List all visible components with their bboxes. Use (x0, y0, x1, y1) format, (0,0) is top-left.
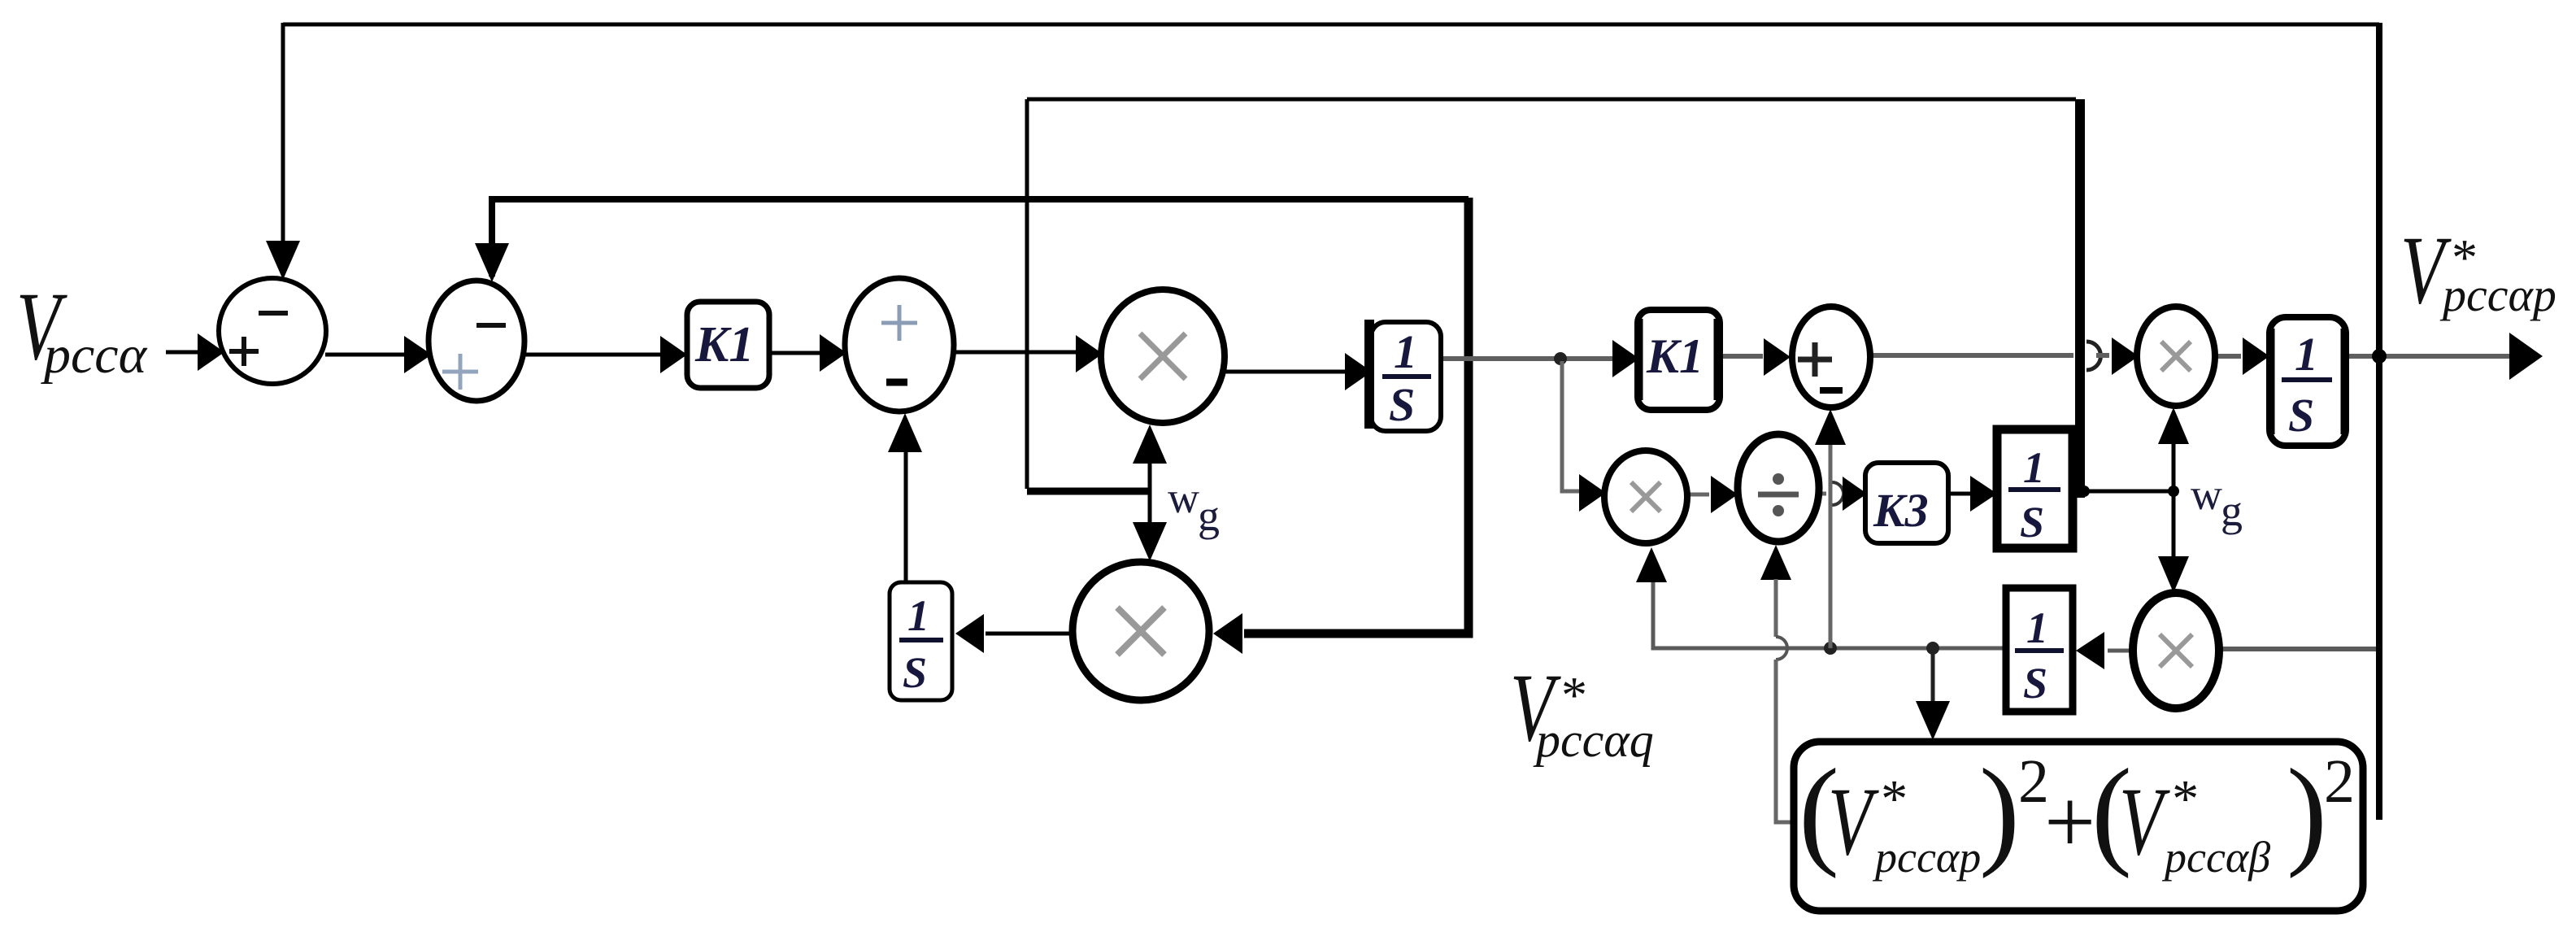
svg-text:+: + (2044, 772, 2095, 873)
svg-text:S: S (1389, 378, 1415, 431)
svg-text:K1: K1 (694, 317, 754, 372)
svg-text:w: w (2191, 470, 2222, 519)
svg-text:K1: K1 (1646, 329, 1704, 383)
svg-text:): ) (2287, 744, 2327, 879)
svg-text:pccα: pccα (41, 325, 148, 385)
svg-text:1: 1 (1394, 325, 1417, 378)
svg-text:pccαq: pccαq (1533, 713, 1654, 767)
svg-text:2: 2 (2324, 747, 2355, 816)
svg-text:S: S (2288, 389, 2314, 442)
svg-text:pccαp: pccαp (2439, 268, 2556, 321)
svg-text:*: * (1878, 769, 1905, 829)
svg-text:1: 1 (2026, 603, 2048, 652)
svg-text:V: V (2119, 767, 2170, 875)
svg-text:): ) (1979, 744, 2020, 879)
svg-text:pccαβ: pccαβ (2161, 833, 2270, 882)
svg-text:S: S (2020, 498, 2044, 547)
svg-text:1: 1 (907, 591, 929, 640)
svg-text:K3: K3 (1873, 484, 1929, 537)
svg-text:1: 1 (2295, 328, 2318, 381)
svg-text:w: w (1168, 473, 1199, 522)
svg-text:g: g (2221, 486, 2243, 535)
svg-text:pccαp: pccαp (1872, 833, 1981, 882)
svg-text:*: * (2169, 769, 2196, 829)
svg-text:V: V (1828, 767, 1879, 875)
svg-text:1: 1 (2023, 443, 2045, 492)
svg-text:g: g (1198, 491, 1220, 540)
svg-text:S: S (2023, 659, 2047, 708)
svg-text:S: S (903, 648, 927, 697)
